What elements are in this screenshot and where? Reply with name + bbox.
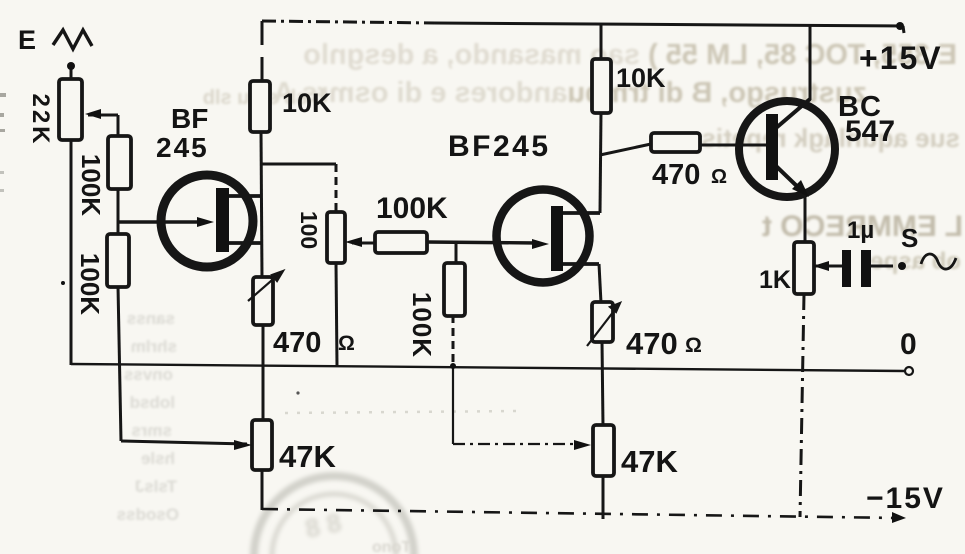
- svg-text:hsle: hsle: [141, 449, 175, 468]
- svg-text:22K: 22K: [27, 93, 54, 146]
- svg-text:470: 470: [273, 327, 321, 359]
- svg-text:BF245: BF245: [448, 130, 551, 163]
- svg-text:shrlm: shrlm: [131, 337, 177, 356]
- svg-text:547: 547: [845, 115, 895, 148]
- svg-text:100K: 100K: [76, 154, 106, 216]
- svg-text:sue aqunlagk repetisp: sue aqunlagk repetisp: [685, 123, 960, 153]
- svg-text:−15V: −15V: [866, 482, 945, 515]
- svg-text:100: 100: [296, 211, 322, 249]
- svg-text:onvss: onvss: [124, 365, 173, 384]
- svg-text:1µ: 1µ: [847, 217, 874, 244]
- svg-text:TslsJ: TslsJ: [135, 477, 177, 496]
- svg-text:BF: BF: [171, 103, 208, 134]
- svg-text:Ω: Ω: [711, 166, 727, 188]
- svg-text:470: 470: [626, 326, 678, 361]
- svg-text:smrs: smrs: [131, 421, 172, 440]
- svg-text:sanss: sanss: [127, 309, 175, 328]
- svg-text:100K: 100K: [75, 253, 105, 315]
- svg-text:100K: 100K: [376, 192, 448, 225]
- svg-text:onoT: onoT: [372, 539, 411, 554]
- svg-text:10K: 10K: [616, 63, 666, 93]
- svg-text:Osodss: Osodss: [117, 505, 179, 524]
- svg-text:245: 245: [156, 132, 209, 163]
- svg-text:10K: 10K: [282, 88, 332, 118]
- svg-text:S: S: [901, 223, 918, 253]
- svg-text:lobsd: lobsd: [130, 393, 175, 412]
- svg-text:470: 470: [652, 159, 700, 191]
- svg-text:Ω: Ω: [685, 334, 702, 357]
- svg-text:100K: 100K: [407, 292, 437, 358]
- svg-text:E: E: [18, 25, 36, 55]
- svg-text:Ω: Ω: [338, 332, 355, 355]
- svg-text:47K: 47K: [279, 439, 336, 474]
- svg-text:0: 0: [900, 328, 917, 361]
- svg-text:+15V: +15V: [859, 40, 943, 76]
- svg-text:1K: 1K: [759, 266, 791, 294]
- svg-text:47K: 47K: [621, 444, 678, 479]
